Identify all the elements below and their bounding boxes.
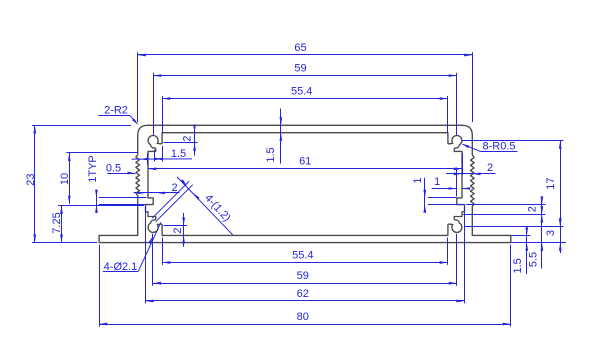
svg-text:1.5: 1.5 [265, 147, 277, 162]
svg-text:1.5: 1.5 [171, 148, 186, 160]
dim 0.5 serration depth leader [107, 173, 130, 175]
svg-text:55.4: 55.4 [292, 249, 313, 261]
extension line 65 left [137, 52, 139, 122]
dim 65 [138, 54, 473, 56]
svg-text:17: 17 [545, 177, 557, 189]
dim 17 [560, 141, 562, 227]
extension line top boss center right [462, 140, 563, 142]
svg-text:23: 23 [25, 173, 37, 185]
svg-text:8-R0.5: 8-R0.5 [482, 141, 515, 153]
svg-text:1.5: 1.5 [512, 258, 524, 273]
extension line 59 bottom right [456, 234, 458, 286]
extension line inner face right [462, 153, 464, 175]
extension line 7.25 top [58, 205, 144, 207]
dim 80 [99, 324, 511, 326]
svg-text:1TYP: 1TYP [87, 155, 99, 183]
extension line slot left [154, 150, 156, 162]
extension line ledge right [463, 214, 546, 216]
extension line step 2 [164, 142, 198, 144]
dim 1TYP [96, 190, 98, 214]
svg-text:2-R2: 2-R2 [104, 105, 128, 117]
dim 7.25 [61, 206, 63, 243]
extension line 59 left [153, 73, 155, 136]
label 4-(1.2) dimension line and arrows [177, 177, 233, 235]
extension line 1TYP bottom [99, 204, 145, 206]
svg-text:10: 10 [59, 173, 71, 185]
svg-text:2: 2 [172, 182, 178, 194]
dim 55.4 [162, 262, 448, 264]
svg-text:2: 2 [182, 136, 194, 142]
extension line 55.4 left [162, 96, 164, 134]
extension line 10 top [66, 152, 138, 154]
svg-text:2: 2 [172, 227, 184, 233]
dim 1 tooth depth [432, 188, 457, 190]
dim 2 bottom boss ledge height [183, 213, 185, 247]
extension line bottom boss center right [464, 226, 563, 228]
dim 5.5 right [541, 217, 543, 269]
extension line 80 left [99, 245, 101, 327]
svg-text:0.5: 0.5 [106, 162, 121, 174]
extension line 59 right [456, 73, 458, 136]
svg-text:1: 1 [412, 177, 424, 183]
extension line 55.4 bottom right [447, 238, 449, 265]
svg-text:1: 1 [434, 176, 440, 188]
svg-text:59: 59 [297, 270, 309, 282]
svg-text:61: 61 [299, 156, 311, 168]
dim 1 tooth height [424, 178, 426, 211]
dim 2 groove depth [134, 192, 180, 194]
extension line ledge 2 [164, 225, 188, 227]
extension line 1TYP top [99, 197, 147, 199]
extension line 59 bottom left [152, 234, 154, 286]
svg-text:62: 62 [297, 288, 309, 300]
dim 61 [148, 168, 462, 170]
dim 1.5 top wall thickness [280, 109, 282, 164]
extension line tooth top right [428, 197, 456, 199]
extension line 80 right [510, 245, 512, 327]
extension line 62 left [145, 206, 147, 303]
dim 23 [34, 125, 36, 242]
label 4-(1.2) extension lines [152, 181, 189, 218]
svg-text:3: 3 [545, 230, 557, 236]
dim 59 [153, 75, 457, 77]
extension line groove bottom right [466, 204, 546, 206]
extension line tooth bottom right [428, 204, 464, 206]
extension line inner face left [147, 153, 149, 165]
svg-text:7.25: 7.25 [51, 212, 63, 233]
extension line plate bottom right [512, 242, 567, 244]
svg-text:2: 2 [527, 206, 539, 212]
extension line 23 top [32, 125, 131, 127]
svg-text:65: 65 [294, 42, 306, 54]
dim 59 [153, 283, 457, 285]
dim 2 right wall thickness [446, 173, 496, 175]
dim 55.4 [162, 98, 448, 100]
dim 1.5 slot width [132, 158, 193, 160]
svg-text:59: 59 [294, 63, 306, 75]
dim 62 [146, 300, 465, 302]
svg-text:55.4: 55.4 [291, 86, 312, 98]
extension line 55.4 bottom left [162, 238, 164, 265]
extension line flange top right [512, 235, 531, 237]
dim 1.5 plate thickness [526, 228, 528, 274]
dim 2 right groove [541, 197, 543, 217]
svg-text:2: 2 [487, 162, 493, 174]
enclosure interior cavity outline with 4 screw bosses [146, 133, 465, 236]
svg-text:80: 80 [297, 311, 309, 323]
extension line 23/7.25 bottom [32, 242, 97, 244]
enclosure outer profile outline [99, 125, 511, 242]
dim 3 [560, 227, 562, 253]
dim 2 top boss step [194, 127, 196, 156]
extension line 65 right [472, 52, 474, 122]
extension line 62 right [464, 206, 466, 303]
dim 10 [69, 153, 71, 204]
extension line 55.4 right [447, 96, 449, 134]
extension line slot right [162, 146, 164, 162]
extension line tooth vertical [456, 168, 458, 197]
svg-text:5.5: 5.5 [528, 252, 540, 267]
